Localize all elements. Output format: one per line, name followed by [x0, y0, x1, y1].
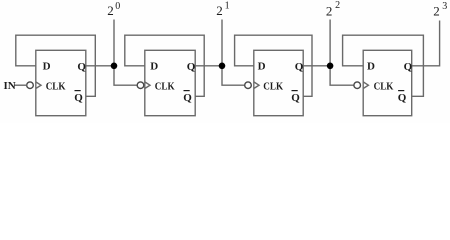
svg-text:2: 2: [335, 0, 340, 11]
svg-text:2: 2: [433, 4, 440, 19]
clock edge triangle FF4: [363, 82, 368, 89]
node label 2^3: [433, 1, 447, 19]
wire: node 2^1 down to FF3 CLK bubble: [222, 66, 245, 85]
wire: FF3 feedback loop Q-bar to D: [235, 35, 312, 96]
svg-text:D: D: [150, 61, 158, 73]
clock bubble FF2: [137, 82, 144, 89]
svg-text:Q: Q: [398, 92, 407, 104]
wire: node 2^0 up to label: [113, 20, 115, 66]
wire: FF2 Q output to node 2^1: [195, 65, 222, 67]
D flip-flop FF2 body: [145, 50, 195, 115]
svg-text:D: D: [367, 61, 375, 73]
svg-text:2: 2: [326, 3, 333, 18]
junction dot node 2^1: [219, 63, 226, 70]
wire: FF1 Q output to node 2^0: [86, 65, 114, 67]
wire: node 2^0 down to FF2 CLK bubble: [114, 66, 137, 85]
wire: FF2 feedback loop Q-bar to D: [125, 35, 204, 96]
clock edge triangle FF2: [145, 82, 150, 89]
wire: IN to FF1 CLK bubble: [15, 84, 27, 86]
node label 2^2: [326, 0, 340, 18]
svg-text:Q: Q: [77, 61, 86, 73]
D flip-flop FF4 body: [363, 50, 412, 115]
svg-text:0: 0: [115, 1, 120, 12]
junction dot node 2^0: [111, 63, 118, 70]
svg-text:D: D: [43, 61, 51, 73]
clock bubble FF3: [245, 82, 252, 89]
junction dot node 2^2: [327, 63, 334, 70]
svg-text:CLK: CLK: [263, 81, 283, 93]
svg-text:CLK: CLK: [155, 81, 175, 93]
wire: node 2^2 up to label: [329, 20, 331, 66]
wire: node 2^1 up to label: [221, 20, 223, 66]
clock bubble FF4: [354, 82, 361, 89]
wire: node 2^2 down to FF4 CLK bubble: [330, 66, 354, 85]
svg-text:1: 1: [225, 0, 230, 11]
svg-text:Q: Q: [74, 92, 83, 104]
svg-text:CLK: CLK: [374, 81, 394, 93]
node label 2^1: [216, 0, 229, 18]
wire: FF4 Q output up to 2^3 label: [412, 21, 440, 66]
svg-text:Q: Q: [291, 92, 300, 104]
svg-text:Q: Q: [295, 61, 304, 73]
pin label Q-bar (FF3): [291, 91, 300, 104]
svg-text:3: 3: [442, 1, 447, 12]
clock edge triangle FF1: [36, 82, 41, 89]
svg-text:IN: IN: [4, 80, 16, 92]
svg-text:Q: Q: [183, 92, 192, 104]
pin label Q-bar (FF4): [398, 91, 407, 104]
pin label Q-bar (FF1): [74, 91, 83, 104]
wire: FF4 feedback loop Q-bar to D: [343, 35, 424, 96]
clock bubble FF1: [27, 82, 34, 89]
svg-text:D: D: [258, 61, 266, 73]
svg-text:Q: Q: [404, 61, 413, 73]
pin label Q-bar (FF2): [183, 91, 192, 104]
svg-text:2: 2: [107, 3, 114, 18]
clock edge triangle FF3: [254, 82, 259, 89]
svg-text:2: 2: [216, 3, 223, 18]
svg-text:CLK: CLK: [46, 81, 66, 93]
wire: FF1 feedback loop Q-bar to D: [16, 35, 96, 96]
D flip-flop FF1 body: [36, 50, 86, 115]
node label 2^0: [107, 1, 120, 18]
wire: FF3 Q output to node 2^2: [303, 65, 330, 67]
svg-text:Q: Q: [187, 61, 196, 73]
D flip-flop FF3 body: [254, 50, 303, 115]
